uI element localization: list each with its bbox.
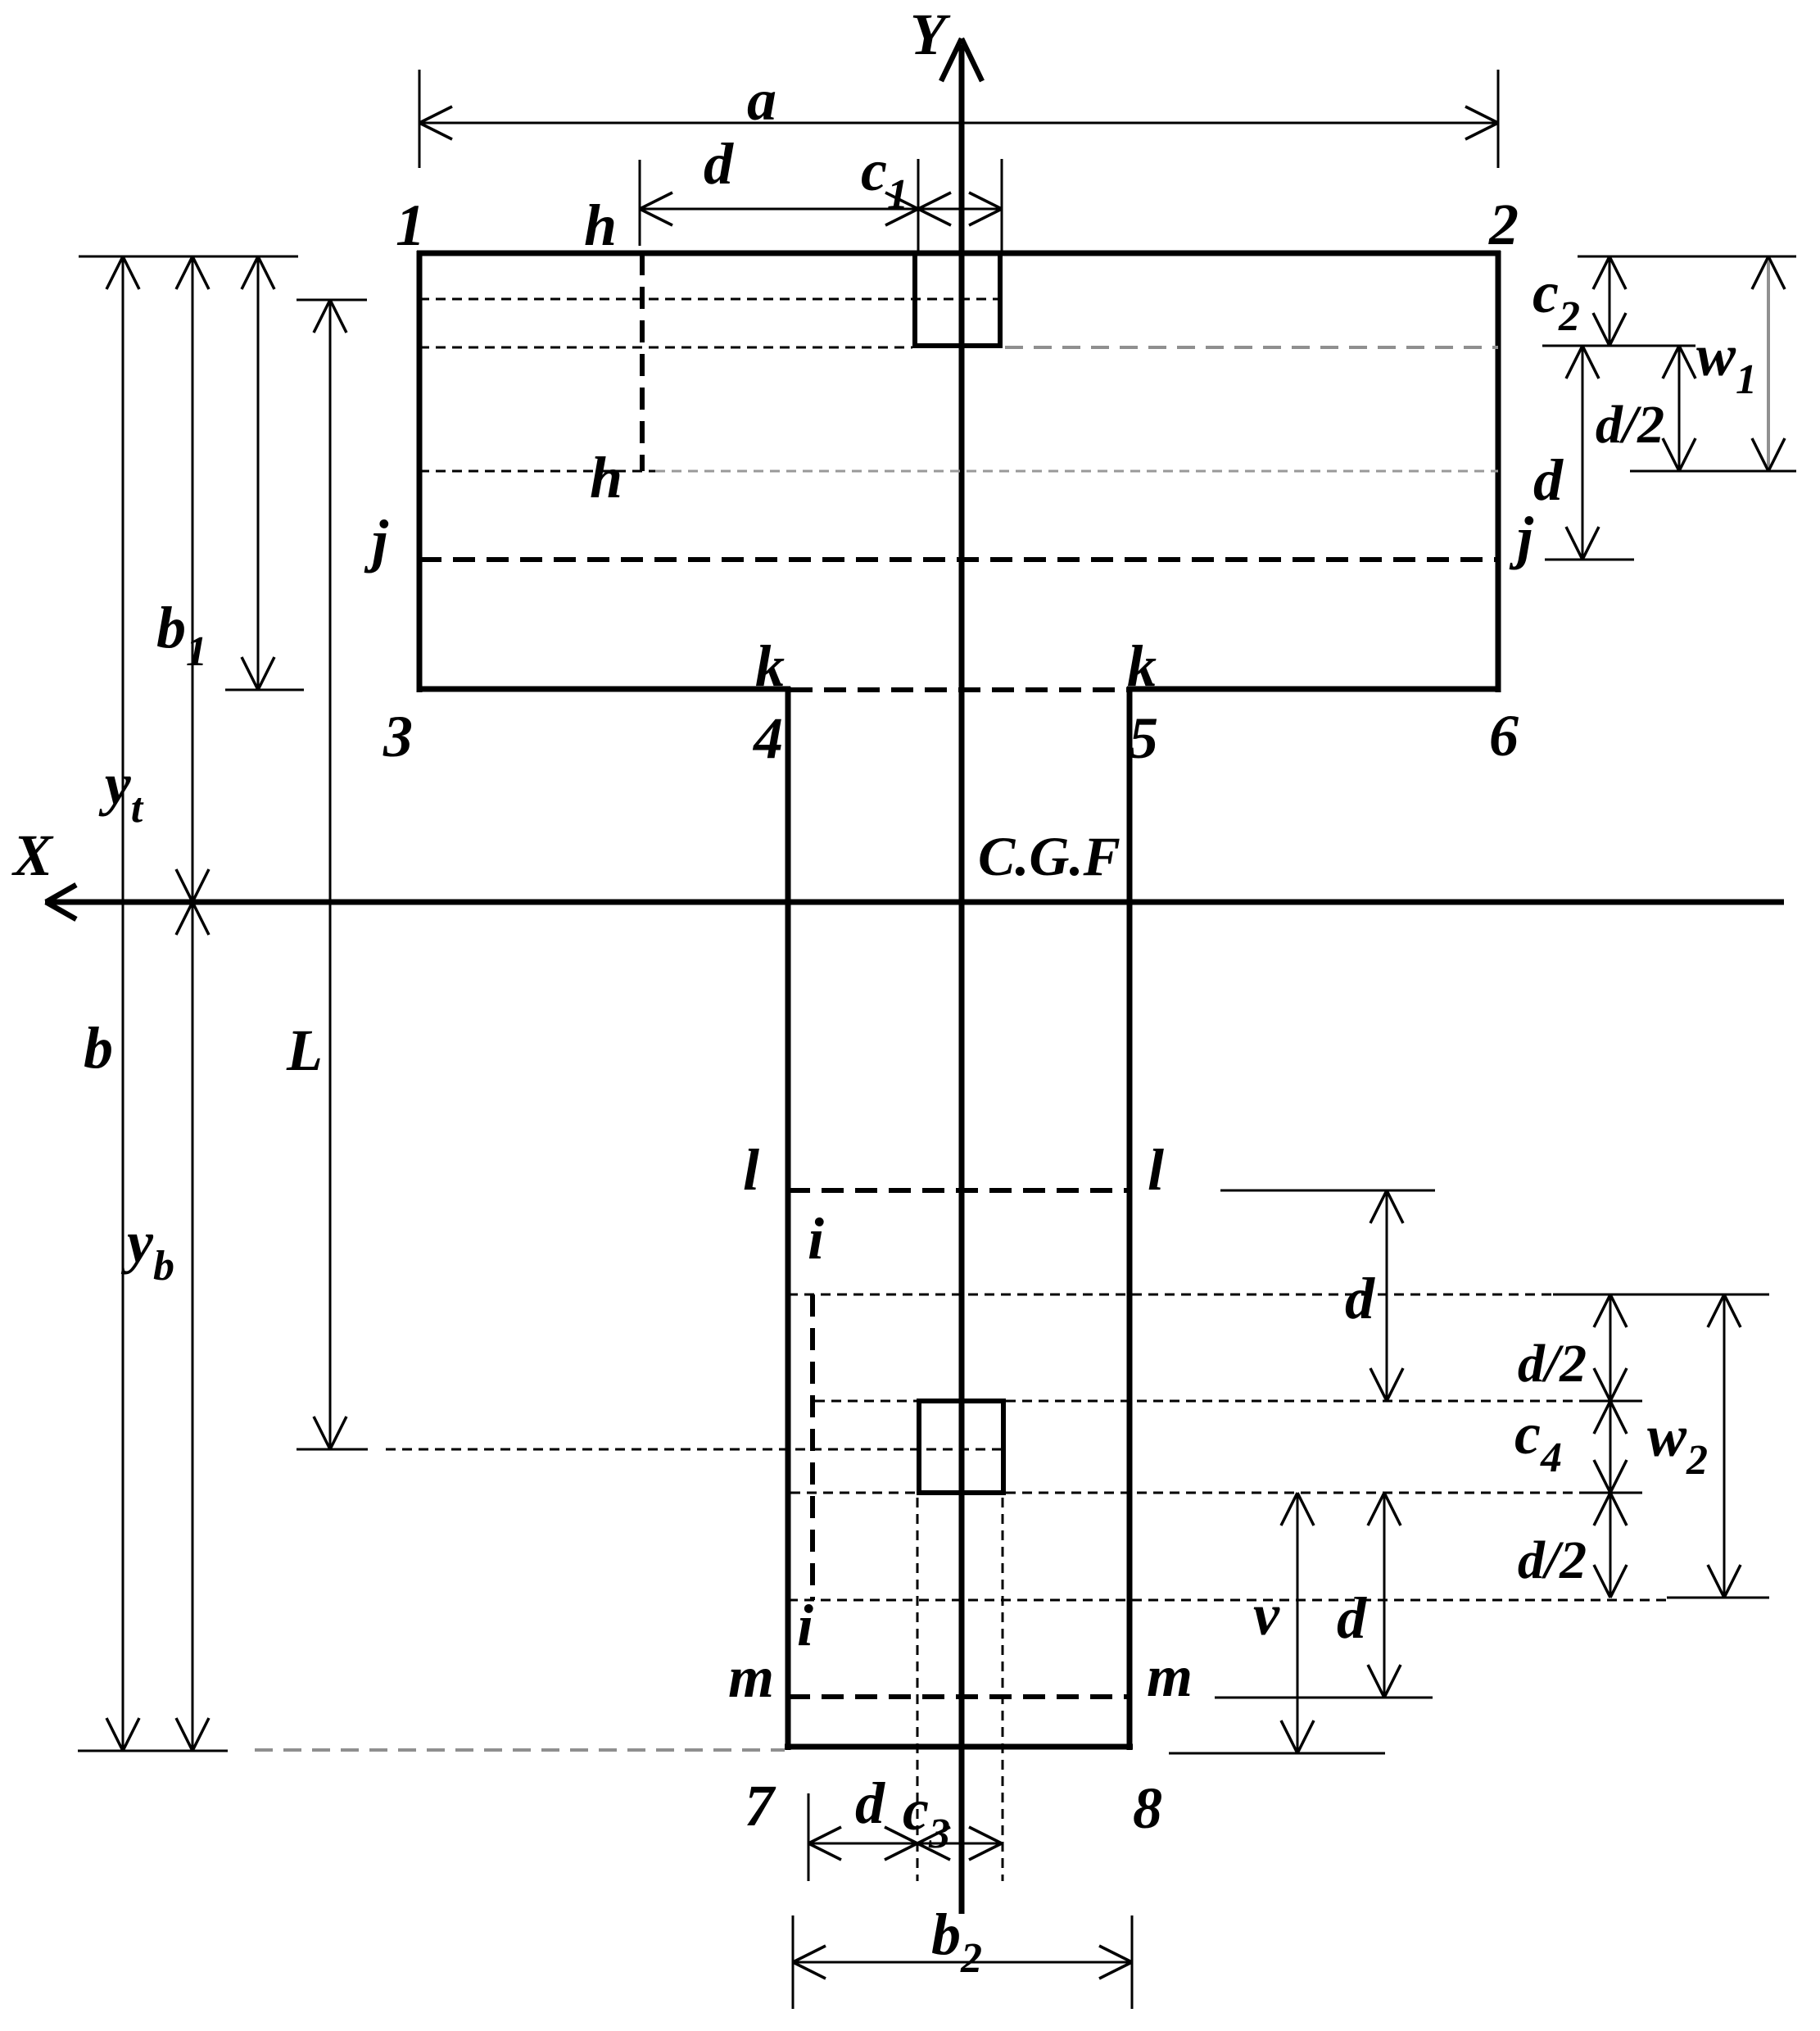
svg-text:3: 3 <box>383 704 413 769</box>
svg-text:d: d <box>1533 447 1564 513</box>
svg-text:7: 7 <box>745 1773 776 1838</box>
svg-text:d: d <box>704 131 734 197</box>
svg-text:C.G.F: C.G.F <box>978 825 1121 887</box>
svg-text:5: 5 <box>1129 705 1158 771</box>
svg-text:2: 2 <box>1488 192 1519 257</box>
svg-text:d: d <box>1337 1585 1367 1651</box>
svg-text:i: i <box>797 1593 813 1658</box>
svg-text:d/2: d/2 <box>1518 1530 1587 1590</box>
svg-text:d: d <box>855 1770 885 1836</box>
svg-text:v: v <box>1253 1582 1280 1648</box>
svg-text:4: 4 <box>752 705 783 771</box>
svg-text:d/2: d/2 <box>1596 395 1664 455</box>
svg-text:l: l <box>1148 1137 1164 1203</box>
svg-text:8: 8 <box>1133 1775 1162 1841</box>
svg-text:L: L <box>286 1018 323 1083</box>
svg-text:h: h <box>584 193 617 258</box>
svg-text:a: a <box>747 67 776 133</box>
svg-text:X: X <box>11 823 54 888</box>
svg-text:k: k <box>755 633 785 699</box>
svg-text:m: m <box>1147 1643 1193 1709</box>
svg-text:d: d <box>1345 1266 1375 1331</box>
svg-text:l: l <box>743 1137 759 1203</box>
svg-text:b: b <box>84 1015 113 1081</box>
svg-text:m: m <box>728 1644 774 1710</box>
svg-text:1: 1 <box>396 193 425 258</box>
svg-text:d/2: d/2 <box>1518 1334 1587 1394</box>
svg-text:6: 6 <box>1489 703 1519 768</box>
svg-text:Y: Y <box>910 2 951 67</box>
svg-text:i: i <box>808 1206 824 1272</box>
svg-text:h: h <box>590 445 623 510</box>
svg-text:k: k <box>1127 633 1157 699</box>
